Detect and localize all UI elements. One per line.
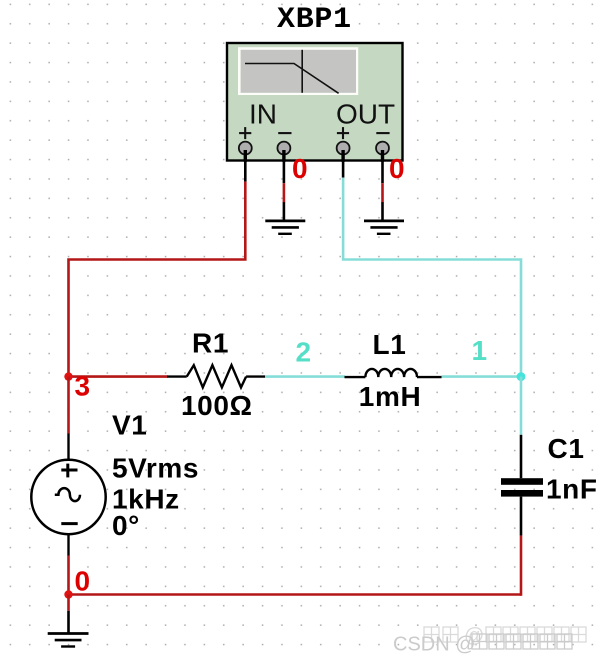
wire IN+ pin stub (black) [244, 161, 247, 182]
svg-text:0: 0 [292, 153, 308, 184]
ground under OUT- [364, 221, 404, 234]
svg-text:5Vrms: 5Vrms [112, 453, 199, 484]
wire OUT- to ground (red) [381, 183, 384, 202]
instrument display bezel [238, 47, 358, 95]
svg-text:CSDN @: CSDN @ [393, 634, 476, 656]
inductor L1 [345, 369, 442, 377]
wire net 1: OUT+ down, right, down to junction (cyan) [343, 178, 521, 377]
wire node 0 to ground (red) [67, 595, 70, 611]
wire bottom net 0 (red) [67, 593, 521, 596]
bode response curve [245, 64, 339, 94]
svg-text:0°: 0° [112, 510, 140, 541]
wire net 3: IN+ down, left, down to node 3 (red) [69, 182, 246, 377]
svg-text:C1: C1 [548, 433, 585, 464]
resistor R1 [167, 365, 265, 387]
OUT+ plus mark [337, 127, 349, 139]
node 3 junction dot [64, 372, 72, 380]
wire C1 to bottom net (red) [520, 536, 523, 596]
OUT- minus mark [376, 132, 389, 134]
svg-text:0: 0 [75, 566, 91, 597]
svg-text:1mH: 1mH [359, 381, 422, 412]
svg-text:0: 0 [389, 153, 405, 184]
capacitor C1 [501, 478, 543, 496]
pin OUT- [376, 142, 389, 162]
pin IN+ [239, 142, 252, 162]
ground under IN- [265, 221, 305, 234]
svg-text:1nF: 1nF [546, 474, 598, 505]
svg-text:2: 2 [296, 337, 312, 368]
wire V1 bottom pin (black) [67, 534, 69, 556]
wire node 3 to R1 (red) [69, 375, 168, 378]
wire V1 to node 0 (red) [67, 556, 70, 595]
wire IN- to ground (red) [283, 183, 286, 202]
svg-text:1: 1 [472, 335, 488, 366]
pin OUT+ [337, 142, 350, 162]
wire C1 top lead (black) [520, 435, 523, 478]
wire net 2: R1 to L1 (cyan) [265, 375, 345, 378]
net 1 junction dot [517, 372, 526, 381]
wire C1 bottom lead (black) [520, 497, 523, 536]
wire ground lead (black) [67, 611, 70, 633]
svg-text:100Ω: 100Ω [181, 390, 253, 421]
instrument XBP1 body [227, 43, 403, 161]
wire L1 to junction (cyan) [442, 375, 521, 378]
wire V1 top pin (black) [67, 434, 69, 462]
ground under V1 [48, 634, 89, 647]
pin IN- [277, 142, 290, 162]
svg-text:OUT: OUT [336, 99, 395, 130]
IN- minus mark [278, 132, 291, 134]
watermark zhihu row [424, 627, 458, 642]
display cursor line [301, 50, 303, 93]
wire junction to C1 (cyan) [520, 377, 523, 435]
svg-text:R1: R1 [192, 328, 229, 359]
wire IN- pin stub (black) [283, 161, 286, 183]
svg-text:XBP1: XBP1 [277, 3, 352, 37]
svg-text:L1: L1 [373, 329, 407, 360]
source V1 symbol [31, 460, 105, 534]
wire OUT- ground lead (black) [381, 202, 384, 221]
node 0 junction dot [64, 590, 72, 598]
svg-text:V1: V1 [112, 410, 147, 441]
IN+ plus mark [239, 127, 251, 139]
instrument display screen [241, 50, 356, 93]
svg-text:IN: IN [249, 99, 277, 130]
wire OUT+ pin stub (black) [342, 161, 345, 178]
wire OUT- pin stub (black) [381, 161, 384, 183]
svg-text:3: 3 [75, 370, 91, 401]
wire IN- ground lead (black) [283, 202, 286, 221]
wire node 3 to V1 (red) [67, 377, 70, 434]
